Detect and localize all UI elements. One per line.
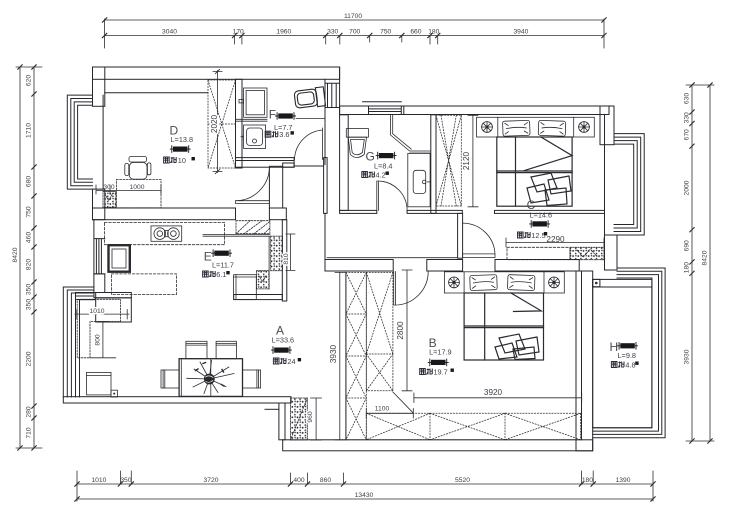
svg-text:L=17.9: L=17.9	[429, 348, 452, 357]
left wall block below bay	[93, 189, 105, 220]
svg-text:660: 660	[410, 29, 421, 36]
dim 1010 kitchen	[75, 310, 129, 320]
svg-text:350: 350	[26, 284, 33, 295]
dim 810	[286, 234, 295, 270]
svg-text:280: 280	[26, 406, 33, 417]
svg-text:1100: 1100	[375, 406, 390, 413]
svg-text:3930: 3930	[684, 349, 691, 364]
kitchen lower counter	[111, 274, 176, 295]
svg-text:180: 180	[582, 477, 593, 484]
door bath F	[295, 128, 323, 160]
svg-text:180: 180	[428, 29, 439, 36]
svg-text:1000: 1000	[130, 184, 145, 191]
svg-text:3.6: 3.6	[279, 130, 289, 139]
washing machine bath F	[244, 88, 267, 117]
wall spur at B door	[458, 213, 463, 258]
cabinet room A bottom-left	[87, 372, 112, 395]
svg-text:350: 350	[26, 299, 33, 310]
room B label	[420, 336, 454, 377]
room G label	[362, 150, 397, 180]
dim 2800	[402, 270, 412, 391]
room D label	[164, 124, 195, 166]
svg-text:2120: 2120	[462, 151, 471, 170]
svg-text:690: 690	[684, 240, 691, 251]
wardrobe B left strips	[346, 272, 393, 439]
svg-text:2800: 2800	[396, 321, 405, 340]
svg-text:L=14.6: L=14.6	[530, 211, 553, 220]
svg-text:L=9.8: L=9.8	[618, 351, 636, 360]
svg-text:1710: 1710	[26, 123, 33, 138]
bottom chain	[77, 471, 653, 501]
svg-text:3940: 3940	[513, 29, 528, 36]
svg-text:24: 24	[287, 357, 295, 366]
svg-text:2200: 2200	[26, 351, 33, 366]
hall boundary line	[324, 213, 326, 259]
top chain labels	[162, 13, 529, 36]
kitchen sink black frame	[109, 245, 130, 272]
bath F bottom wall	[236, 158, 295, 168]
svg-text:700: 700	[349, 29, 360, 36]
toilet bath F	[294, 87, 326, 109]
svg-text:330: 330	[684, 112, 691, 123]
wall between G and wardrobe C	[431, 115, 436, 214]
door room B	[463, 223, 495, 257]
H top wall	[593, 279, 652, 287]
left counter dashed	[77, 299, 120, 358]
wardrobe B bottom row	[366, 413, 580, 440]
dining table room A	[179, 359, 242, 397]
svg-text:L=13.8: L=13.8	[171, 135, 194, 144]
living room west bay window	[63, 287, 95, 397]
svg-text:330: 330	[327, 29, 338, 36]
bath F right wall and vent shaft	[325, 67, 340, 165]
room C label	[518, 198, 553, 240]
fridge cabinet dashed	[236, 221, 270, 234]
chairs room A	[161, 341, 261, 388]
wardrobe room D	[208, 80, 236, 168]
svg-text:8420: 8420	[702, 250, 709, 265]
svg-text:10: 10	[178, 156, 186, 165]
bottom chain labels	[91, 477, 630, 499]
shower glass hall G	[391, 115, 431, 153]
left kitchen wall with window	[94, 220, 105, 274]
left connector block	[76, 293, 96, 300]
svg-text:3720: 3720	[204, 477, 219, 484]
hatch square 2	[257, 271, 270, 289]
H corner column	[593, 279, 600, 286]
corridor south edge line	[327, 257, 457, 259]
door room A (hall entry)	[394, 272, 429, 306]
sink counter hall G	[408, 153, 430, 206]
svg-text:630: 630	[684, 93, 691, 104]
svg-text:3920: 3920	[484, 388, 503, 397]
svg-text:680: 680	[26, 176, 33, 187]
kitchen bottom-left wall + protrusion	[94, 293, 131, 298]
toilet hall G	[346, 129, 368, 158]
bedroom C furniture	[477, 117, 595, 137]
kitchen counter with stove	[105, 222, 225, 244]
svg-text:1010: 1010	[90, 308, 105, 315]
svg-text:750: 750	[380, 29, 391, 36]
svg-text:300: 300	[103, 184, 114, 191]
svg-text:170: 170	[233, 29, 244, 36]
window in top wall	[363, 102, 404, 115]
svg-text:860: 860	[320, 477, 331, 484]
svg-text:19.7: 19.7	[434, 368, 448, 377]
svg-text:8420: 8420	[12, 247, 19, 262]
cabinet right of kitchen	[234, 275, 257, 300]
svg-text:2000: 2000	[684, 180, 691, 195]
kitchen top wall (below room D)	[93, 208, 236, 220]
svg-text:750: 750	[26, 206, 33, 217]
B right / H left wall	[576, 271, 593, 451]
dashed rect 1000	[116, 180, 161, 208]
bay window room D (left)	[67, 95, 92, 189]
svg-text:1010: 1010	[91, 477, 106, 484]
dim 800	[90, 322, 116, 358]
svg-text:L=11.7: L=11.7	[212, 260, 234, 269]
dim 3920	[414, 393, 582, 403]
svg-text:960: 960	[307, 411, 314, 422]
svg-text:620: 620	[26, 75, 33, 86]
svg-text:1960: 1960	[276, 29, 291, 36]
left chain labels	[12, 75, 33, 439]
vestibule wall block	[269, 166, 282, 208]
svg-text:2290: 2290	[546, 235, 565, 244]
room F label	[265, 108, 296, 140]
dim 2290	[506, 238, 604, 247]
svg-text:820: 820	[26, 259, 33, 270]
door hall G	[377, 181, 407, 210]
wall between D-wardrobe and bath F	[236, 79, 243, 168]
step wall down	[279, 403, 285, 440]
dim 1100	[366, 409, 413, 419]
bottom wall upper-left	[63, 397, 291, 403]
svg-text:E: E	[204, 249, 212, 263]
desk chair room D	[125, 156, 151, 179]
sink bath F	[241, 125, 266, 148]
C right wall stub top	[600, 106, 614, 145]
svg-text:L=33.6: L=33.6	[272, 336, 295, 345]
svg-text:710: 710	[26, 427, 33, 438]
svg-text:4.8: 4.8	[625, 361, 635, 370]
svg-text:4.2: 4.2	[376, 171, 386, 180]
room E label	[203, 249, 234, 279]
top wall right section	[340, 106, 609, 115]
kitchen right wall	[282, 220, 287, 301]
dim 3930 interior	[335, 272, 345, 439]
svg-text:1390: 1390	[616, 477, 631, 484]
svg-text:F: F	[269, 108, 276, 122]
hall G left wall	[340, 115, 349, 211]
kitchen bottom right wall	[234, 295, 283, 300]
dim 300/1000	[96, 185, 161, 194]
svg-text:5520: 5520	[455, 477, 470, 484]
svg-text:810: 810	[283, 253, 290, 264]
svg-text:3930: 3930	[329, 344, 338, 363]
hatch column 960	[291, 398, 308, 440]
B top wall band pieces	[325, 260, 393, 272]
corridor wall right of F	[324, 158, 328, 214]
svg-text:12.5: 12.5	[531, 231, 545, 240]
cabinets below C	[507, 247, 570, 259]
svg-text:350: 350	[120, 477, 131, 484]
room H label	[610, 340, 639, 370]
right chain	[686, 85, 714, 441]
svg-text:180: 180	[684, 262, 691, 273]
right chain labels	[684, 93, 709, 365]
room D inner boundary line	[103, 93, 208, 189]
svg-text:6.1: 6.1	[216, 270, 226, 279]
wardrobe A-side boundary	[345, 272, 347, 439]
kitchen vestibule door	[236, 167, 270, 204]
top chain	[105, 19, 604, 48]
svg-text:460: 460	[26, 232, 33, 243]
svg-text:L=8.4: L=8.4	[374, 162, 392, 171]
dim 2120	[468, 115, 478, 207]
H interior	[593, 287, 652, 428]
svg-text:13430: 13430	[355, 492, 374, 499]
svg-text:400: 400	[293, 477, 304, 484]
room A label	[271, 323, 301, 366]
svg-text:3040: 3040	[162, 29, 177, 36]
bedroom corridor wall with door gaps	[340, 210, 377, 213]
bottom wall lower	[283, 440, 593, 451]
balcony H nested bay	[593, 268, 665, 438]
left wall upper block	[93, 67, 105, 106]
wardrobe room C	[436, 115, 461, 206]
top wall left section	[93, 67, 340, 79]
svg-text:11700: 11700	[344, 13, 362, 20]
wall below bay C	[605, 235, 618, 270]
bedroom B furniture	[444, 272, 564, 293]
dim 960	[311, 398, 322, 440]
hatched square kitchen left	[103, 191, 116, 207]
svg-text:2020: 2020	[210, 114, 219, 133]
fridge hatch column	[271, 236, 283, 271]
svg-text:670: 670	[684, 129, 691, 140]
left chain	[16, 67, 42, 448]
svg-text:800: 800	[95, 334, 102, 345]
bay window room C (right)	[614, 134, 644, 235]
interior dims	[90, 114, 565, 422]
